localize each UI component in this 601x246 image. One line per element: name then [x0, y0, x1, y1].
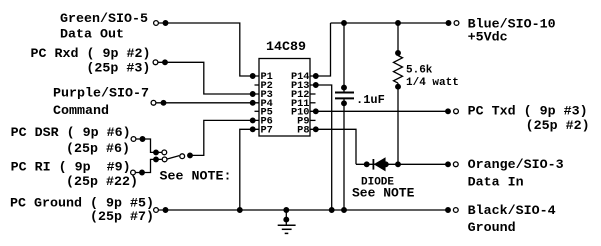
terminal Purple/SIO-7 [151, 100, 156, 105]
terminal PC Ground [154, 208, 159, 213]
svg-text:Orange/SIO-3: Orange/SIO-3 [468, 158, 564, 173]
svg-text:PC RI ( 9p #9): PC RI ( 9p #9) [11, 160, 131, 175]
svg-text:(25p #3): (25p #3) [86, 62, 150, 77]
svg-text:PC Txd ( 9p #3): PC Txd ( 9p #3) [468, 105, 588, 120]
wire P7 to ground bus [238, 127, 260, 212]
svg-text:PC Rxd ( 9p #2): PC Rxd ( 9p #2) [31, 47, 151, 62]
wire P10 to PC Txd [310, 109, 450, 114]
svg-text:Ground: Ground [468, 221, 516, 236]
svg-text:P7: P7 [261, 125, 273, 137]
svg-text:(25p #6): (25p #6) [66, 142, 130, 157]
wire switch arm to P6 [188, 118, 259, 158]
terminal Green/SIO-5 [154, 21, 159, 26]
diode D1 [373, 158, 385, 170]
svg-text:Green/SIO-5: Green/SIO-5 [60, 12, 148, 27]
svg-text:5.6k: 5.6k [406, 65, 433, 77]
svg-text:(25p #7): (25p #7) [90, 210, 154, 225]
wire Green/SIO-5 to P1 [158, 21, 259, 79]
wire PC RI to switch contact [136, 157, 162, 175]
svg-text:14C89: 14C89 [266, 40, 306, 55]
svg-text:P8: P8 [297, 125, 309, 137]
stub P11 [310, 102, 316, 104]
stub P12 [310, 93, 316, 95]
svg-text:Purple/SIO-7: Purple/SIO-7 [53, 87, 149, 102]
wire +5V top rail [331, 21, 451, 26]
svg-text:(25p #2): (25p #2) [526, 119, 590, 134]
wire diode row to Orange/SIO-3 [356, 162, 450, 167]
svg-text:Command: Command [53, 104, 109, 119]
op-amp U1 14C89 body [259, 59, 310, 137]
terminal Blue/SIO-10 [454, 21, 459, 26]
svg-text:PC DSR ( 9p #6): PC DSR ( 9p #6) [11, 126, 131, 141]
wire PC DSR to switch contact [136, 137, 162, 155]
wire P8 to diode [310, 127, 356, 164]
switch S1 DSR/RI select [162, 150, 185, 162]
svg-text:See NOTE: See NOTE [352, 186, 415, 201]
svg-text:Data Out: Data Out [60, 27, 124, 42]
capacitor C1 .1uF [335, 23, 354, 212]
terminal Orange/SIO-3 [453, 162, 458, 167]
terminal PC DSR [131, 137, 136, 142]
svg-text:Black/SIO-4: Black/SIO-4 [468, 204, 556, 219]
stub P5 [255, 110, 260, 112]
terminal PC Rxd [153, 60, 158, 65]
wire P14 to +5V rail [310, 23, 331, 78]
resistor R1 5.6k [394, 23, 403, 164]
terminal PC Txd [454, 109, 459, 114]
stub P2 [255, 84, 260, 86]
terminal Black/SIO-4 [453, 208, 458, 213]
svg-text:.1uF: .1uF [356, 93, 385, 107]
ground bus wire [159, 208, 449, 213]
svg-text:(25p #22): (25p #22) [66, 175, 138, 190]
terminal PC RI [131, 170, 136, 175]
wire Purple/SIO-7 to P4 [156, 101, 259, 106]
ground symbol [278, 208, 296, 234]
stub P9 [310, 119, 316, 121]
svg-text:+5Vdc: +5Vdc [468, 30, 508, 45]
wire PC Rxd to P3 [158, 60, 259, 96]
wire ground bus to Black/SIO-4 [446, 208, 451, 213]
svg-text:1/4 watt: 1/4 watt [406, 77, 459, 89]
svg-text:See NOTE:: See NOTE: [160, 169, 232, 184]
wire P13 to ground bus [310, 83, 334, 213]
svg-text:Data In: Data In [468, 175, 524, 190]
